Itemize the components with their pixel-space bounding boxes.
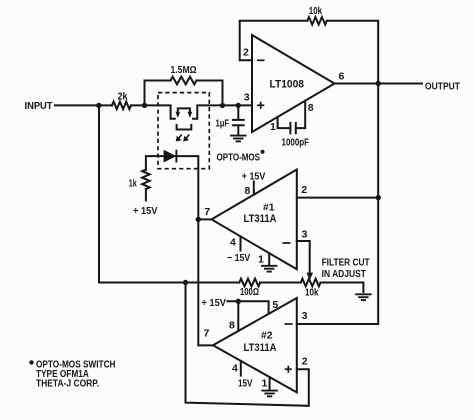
- resistor R1 2k: [112, 102, 131, 110]
- wire right bus down to pin3 of U3: [297, 21, 378, 324]
- svg-text:LT311A: LT311A: [244, 213, 277, 225]
- svg-text:3: 3: [302, 310, 308, 322]
- svg-text:3: 3: [244, 92, 250, 104]
- wire U2 pin4 supply lead: [240, 236, 242, 250]
- ground pot right: [355, 293, 371, 295]
- svg-text:+ 15V: + 15V: [202, 297, 227, 309]
- junction node pin7 U2: [196, 217, 201, 222]
- wire LED anode from 1k: [146, 156, 164, 170]
- svg-text:1: 1: [258, 254, 264, 266]
- wire output: [335, 83, 423, 85]
- potentiometer R5 10k element: [301, 279, 321, 287]
- ground 1uF: [230, 135, 246, 137]
- comparator U3 LT311A #2 triangle: [213, 298, 297, 392]
- resistor R3 1k: [142, 170, 150, 190]
- wire LED cathode down to comparators: [176, 156, 213, 345]
- pot wiper arrowhead: [306, 273, 313, 281]
- junction node +15V U3: [236, 299, 241, 304]
- junction node pin2 U2 bus: [376, 195, 381, 200]
- svg-text:8: 8: [308, 102, 314, 114]
- svg-text:OPTO-MOS: OPTO-MOS: [217, 152, 261, 164]
- svg-text:1: 1: [270, 121, 276, 133]
- asterisk after OPTO-MOS: [261, 150, 265, 154]
- wire U3 pin1 ground lead: [269, 377, 271, 389]
- mosfet source arrow left: [176, 112, 181, 118]
- mosfet gate plate: [177, 125, 192, 130]
- svg-text:LT311A: LT311A: [244, 342, 277, 354]
- svg-text:#1: #1: [263, 202, 275, 214]
- svg-text:8: 8: [229, 320, 235, 332]
- opto-MOS dashed enclosure: [158, 93, 209, 169]
- ground U2 pin1: [261, 265, 277, 267]
- junction node lower rail: [183, 280, 188, 285]
- svg-text:FILTER CUT: FILTER CUT: [322, 257, 370, 269]
- wire rail to ground: [321, 283, 364, 293]
- wire feedback loop left leg: [240, 21, 308, 60]
- junction node after 2k: [142, 103, 147, 108]
- wire U3 pin8 lead: [237, 301, 239, 331]
- svg-text:INPUT: INPUT: [25, 100, 54, 112]
- wire U2 pin8 supply lead: [253, 182, 255, 195]
- svg-text:1: 1: [262, 378, 268, 390]
- opto light arrow 1: [179, 135, 182, 139]
- U2 pin3 minus sign: [283, 242, 291, 244]
- svg-text:3: 3: [302, 229, 308, 241]
- svg-text:4: 4: [230, 237, 236, 249]
- svg-text:+ 15V: + 15V: [242, 171, 265, 183]
- wire 2k to opto box with MOSFET left lead: [131, 105, 175, 118]
- note bullet asterisk: [29, 360, 33, 364]
- capacitor C1 1uF: [237, 105, 239, 119]
- resistor R6 10k feedback: [307, 17, 327, 25]
- svg-text:15V: 15V: [238, 378, 253, 390]
- svg-text:7: 7: [204, 206, 210, 218]
- op-amp U1 LT1008 triangle: [252, 35, 335, 132]
- junction node output: [376, 81, 381, 86]
- junction node 1.5M right: [220, 103, 225, 108]
- svg-text:2: 2: [302, 356, 308, 368]
- svg-text:1μF: 1μF: [216, 118, 230, 130]
- svg-text:1000pF: 1000pF: [282, 137, 310, 149]
- wire left vertical and bottom rail: [99, 105, 239, 282]
- wire input: [55, 104, 112, 106]
- wire rail between 100 and pot: [260, 282, 301, 284]
- wire U2 pin1 ground lead: [268, 253, 270, 264]
- junction node input-left: [96, 103, 101, 108]
- capacitor C2 1000pF: [278, 117, 291, 128]
- junction node 1uF tap: [236, 103, 241, 108]
- wire U3 pin4 lead: [240, 361, 242, 376]
- svg-text:4: 4: [232, 363, 238, 375]
- svg-text:− 15V: − 15V: [227, 252, 250, 264]
- svg-text:1k: 1k: [129, 178, 137, 190]
- svg-text:#2: #2: [261, 330, 273, 342]
- svg-text:2: 2: [301, 184, 307, 196]
- U3 pin3 minus sign: [285, 323, 293, 325]
- wire lower loop to pin2 of U3: [186, 283, 309, 406]
- svg-text:2: 2: [243, 47, 249, 59]
- svg-text:5: 5: [272, 299, 278, 311]
- resistor R2 1.5M loop wire: [145, 81, 171, 106]
- svg-text:10k: 10k: [309, 5, 322, 17]
- ground U3 pin1: [261, 390, 277, 392]
- svg-text:LT1008: LT1008: [270, 79, 305, 91]
- wire +15V rail of U3: [228, 301, 269, 313]
- svg-text:1.5MΩ: 1.5MΩ: [171, 64, 197, 76]
- U3 pin2 plus sign: [285, 368, 292, 370]
- resistor R4 100ohm: [239, 279, 260, 287]
- svg-text:7: 7: [204, 328, 210, 340]
- wire U2 pin7 output to junction: [198, 218, 212, 220]
- svg-text:THETA-J CORP.: THETA-J CORP.: [36, 378, 99, 390]
- svg-text:10k: 10k: [305, 287, 319, 299]
- LED D1 triangle: [164, 150, 177, 163]
- svg-text:6: 6: [339, 71, 345, 83]
- comparator U2 LT311A #1 triangle: [212, 170, 297, 270]
- mosfet source arrow right: [188, 112, 193, 118]
- svg-text:100Ω: 100Ω: [240, 286, 259, 298]
- mosfet body bracket: [178, 108, 190, 113]
- wire U2 pin3 to pot wiper: [297, 241, 310, 274]
- opto light arrow 2: [186, 135, 189, 139]
- svg-text:2k: 2k: [118, 90, 128, 102]
- U1 minus sign: [257, 59, 265, 61]
- svg-text:IN ADJUST: IN ADJUST: [322, 268, 367, 280]
- wire MOSFET right lead to op-amp pin3: [193, 105, 252, 118]
- wire U2 pin2 to bus: [297, 197, 378, 199]
- U1 plus sign: [257, 104, 264, 106]
- svg-text:OUTPUT: OUTPUT: [425, 81, 460, 93]
- svg-text:+ 15V: + 15V: [133, 205, 158, 217]
- svg-text:8: 8: [245, 185, 251, 197]
